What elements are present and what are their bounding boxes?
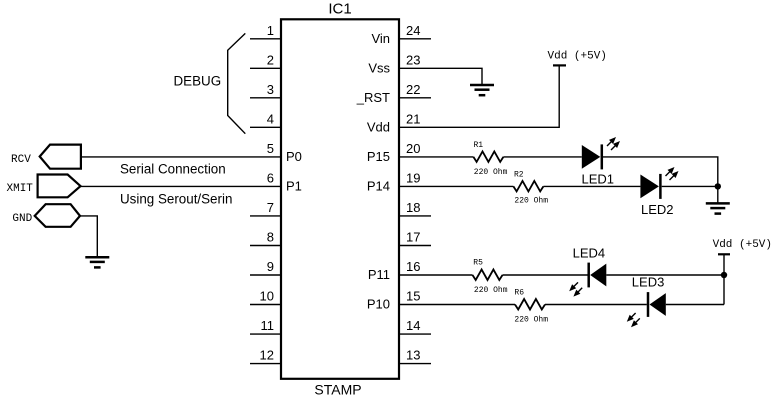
wire R2 to LED2 [543,185,640,187]
svg-text:220 Ohm: 220 Ohm [474,286,508,295]
wire pin 16 to R5 [399,274,473,276]
svg-text:P1: P1 [286,179,302,194]
pin 11 [250,333,281,335]
svg-text:1: 1 [267,23,274,38]
svg-text:220 Ohm: 220 Ohm [474,168,508,177]
wire LED4 to Vdd junction [606,274,724,276]
wire LED2 to junction [662,185,718,187]
Vdd (+5V) power symbol (top) [553,64,566,66]
pin 9 [250,274,281,276]
svg-text:22: 22 [406,82,420,97]
svg-text:2: 2 [267,52,274,67]
pin 4 [250,126,281,128]
pin 3 [250,97,281,99]
svg-text:12: 12 [260,348,274,363]
resistor R2 [513,181,543,192]
wire pin 21 net (Vdd supply) [399,65,559,127]
svg-text:21: 21 [406,111,420,126]
connector GND [35,204,80,227]
svg-text:8: 8 [267,230,274,245]
svg-text:15: 15 [406,289,420,304]
LED2 light arrows [666,171,671,176]
svg-text:Vin: Vin [371,31,390,46]
svg-text:19: 19 [406,171,420,186]
svg-text:LED3: LED3 [632,274,665,289]
wire LED1 to junction [603,157,718,187]
svg-text:STAMP: STAMP [314,382,361,398]
pin 14 [399,333,431,335]
svg-text:220 Ohm: 220 Ohm [514,196,548,205]
wire pin 23 net (Vss to ground) [399,68,482,85]
svg-text:LED2: LED2 [641,202,674,217]
LED D3 (LED3) diode [647,292,650,317]
svg-text:20: 20 [406,141,420,156]
wire R1 to LED1 [503,156,581,158]
IC U1 body (STAMP) [281,19,399,379]
svg-text:LED4: LED4 [573,245,606,260]
LED4 light arrows [573,282,578,287]
junction dot (Vdd LED4) [721,272,727,278]
svg-text:P14: P14 [367,179,390,194]
svg-text:P11: P11 [368,267,390,282]
resistor R5 [473,270,503,281]
wire R6 to LED3 [545,304,647,306]
svg-text:IC1: IC1 [328,1,351,18]
LED3 light arrows [631,313,636,318]
svg-text:Vdd (+5V): Vdd (+5V) [713,239,772,251]
wire LED3 to Vdd net [666,304,724,306]
wire pin 5 net (RCV to P0) [81,156,281,158]
svg-text:P10: P10 [367,297,390,312]
svg-text:XMIT: XMIT [7,183,34,195]
LED D1 (LED1) diode [582,145,601,169]
svg-text:24: 24 [406,23,420,38]
pin 7 [250,215,281,217]
pin 10 [250,304,281,306]
svg-text:11: 11 [261,318,275,333]
connector XMIT [38,175,81,198]
LED D2 (LED2) diode [640,175,659,199]
LED D4 (LED4) diode [587,263,590,288]
svg-text:220 Ohm: 220 Ohm [514,316,548,325]
svg-text:14: 14 [406,318,420,333]
svg-text:3: 3 [267,82,274,97]
svg-text:R2: R2 [514,171,524,180]
svg-text:P0: P0 [286,149,302,164]
svg-text:9: 9 [267,259,274,274]
wire Vdd to LED3 line [723,254,725,304]
svg-text:LED1: LED1 [582,171,615,186]
svg-text:P15: P15 [367,149,390,164]
svg-text:Vdd (+5V): Vdd (+5V) [548,51,607,63]
ground symbol (Vss) [470,84,494,87]
svg-text:5: 5 [267,141,274,156]
pin 22 [399,97,431,99]
wire GND connector to ground [80,216,97,257]
pin 18 [399,215,431,217]
wire pin 19 to R2 [399,185,513,187]
svg-text:R1: R1 [474,141,484,150]
pin 13 [399,363,431,365]
svg-text:Using Serout/Serin: Using Serout/Serin [120,191,232,206]
pin 1 [250,38,281,40]
svg-text:7: 7 [267,200,274,215]
svg-text:DEBUG: DEBUG [174,73,222,88]
connector RCV [40,145,81,169]
pin 24 [399,38,431,40]
pin 17 [399,245,431,247]
LED1 light arrows [607,141,612,146]
wire pin 6 net (XMIT to P1) [81,185,282,187]
svg-text:13: 13 [406,348,420,363]
DEBUG bracket [228,33,246,133]
resistor R1 [473,151,503,162]
ground symbol (GND connector) [85,256,109,259]
pin 8 [250,245,281,247]
svg-text:_RST: _RST [356,90,390,105]
wire junction to ground [717,186,719,203]
Vdd (+5V) power symbol (bottom) [718,253,730,255]
svg-text:18: 18 [406,200,420,215]
svg-text:Vss: Vss [368,61,390,76]
ground symbol (LED1/LED2) [706,202,730,205]
svg-text:4: 4 [267,111,274,126]
svg-text:R5: R5 [473,258,483,267]
svg-text:17: 17 [406,230,420,245]
svg-text:6: 6 [267,171,274,186]
svg-text:R6: R6 [514,289,524,298]
pin 12 [250,363,281,365]
wire R5 to LED4 [503,274,588,276]
svg-text:16: 16 [406,259,420,274]
svg-text:23: 23 [406,52,420,67]
wire pin 20 to R1 [399,156,473,158]
svg-text:Serial Connection: Serial Connection [120,161,226,176]
junction dot (LED1/LED2 ground) [715,183,721,189]
resistor R6 [515,299,545,310]
svg-text:10: 10 [260,289,274,304]
svg-text:RCV: RCV [11,154,31,166]
svg-text:Vdd: Vdd [367,120,390,135]
svg-text:GND: GND [12,213,32,225]
wire pin 15 to R6 [399,304,515,306]
pin 2 [250,67,281,69]
